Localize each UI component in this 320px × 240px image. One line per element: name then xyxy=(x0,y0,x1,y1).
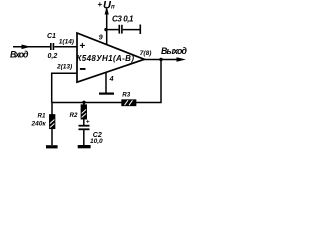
svg-text:К548УН1(А-В): К548УН1(А-В) xyxy=(77,54,135,63)
svg-text:10,0: 10,0 xyxy=(90,138,103,145)
svg-text:2(13): 2(13) xyxy=(56,64,72,71)
svg-text:+: + xyxy=(79,41,85,52)
svg-text:+: + xyxy=(86,119,90,126)
svg-text:Выход: Выход xyxy=(161,46,188,56)
svg-text:1(14): 1(14) xyxy=(59,38,74,45)
svg-text:C1: C1 xyxy=(47,33,56,40)
svg-text:240к: 240к xyxy=(31,121,47,128)
svg-text:R2: R2 xyxy=(70,112,78,119)
svg-text:+: + xyxy=(97,0,102,9)
svg-text:п: п xyxy=(111,5,115,11)
svg-text:9: 9 xyxy=(99,35,103,42)
svg-text:R1: R1 xyxy=(38,113,46,120)
svg-text:7(8): 7(8) xyxy=(140,50,152,57)
svg-text:Вход: Вход xyxy=(10,49,29,59)
svg-text:0,2: 0,2 xyxy=(48,53,58,60)
svg-text:R3: R3 xyxy=(122,92,130,99)
svg-text:С3 0,1: С3 0,1 xyxy=(112,14,134,23)
svg-text:4: 4 xyxy=(109,76,114,83)
